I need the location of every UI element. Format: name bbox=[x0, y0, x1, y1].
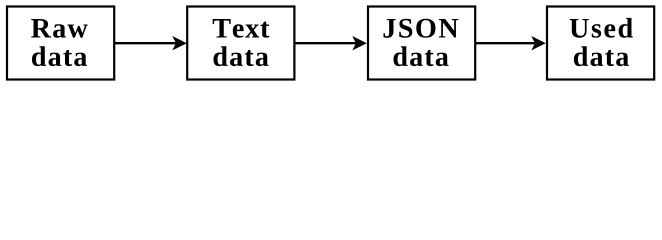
arrowhead 2 bbox=[352, 36, 367, 50]
arrowhead 3 bbox=[531, 36, 546, 50]
box JSON data bbox=[368, 7, 475, 80]
label "Text" bbox=[213, 19, 270, 38]
box Raw data bbox=[7, 7, 114, 80]
wire arrow 3 (JSON data to Used data) bbox=[475, 42, 537, 44]
label "Used" bbox=[570, 18, 633, 38]
arrowhead 1 bbox=[172, 36, 187, 50]
label "JSON" bbox=[384, 19, 459, 38]
wire arrow 2 (Text data to JSON data) bbox=[294, 42, 358, 44]
box Used data bbox=[547, 7, 654, 80]
label "Raw" bbox=[31, 19, 88, 38]
label "data" (box 1) bbox=[32, 46, 87, 66]
label "data" (box 3) bbox=[394, 46, 449, 66]
label "data" (box 2) bbox=[214, 46, 269, 66]
box Text data bbox=[187, 7, 294, 80]
label "data" (box 4) bbox=[574, 46, 629, 66]
wire arrow 1 (Raw data to Text data) bbox=[114, 42, 178, 44]
